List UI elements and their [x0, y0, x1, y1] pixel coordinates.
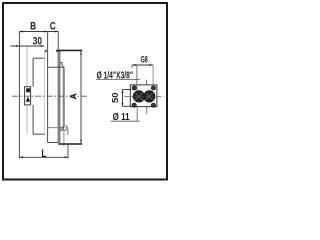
svg-text:Ø 1/4"X3/8": Ø 1/4"X3/8" [97, 70, 134, 81]
svg-text:30: 30 [33, 35, 42, 47]
svg-text:L: L [41, 148, 46, 160]
svg-text:A: A [68, 93, 78, 100]
svg-text:50: 50 [111, 92, 120, 103]
svg-text:C: C [50, 21, 56, 33]
svg-text:B: B [30, 20, 36, 32]
svg-text:G8: G8 [141, 54, 148, 64]
svg-text:Ø 11: Ø 11 [113, 111, 130, 123]
